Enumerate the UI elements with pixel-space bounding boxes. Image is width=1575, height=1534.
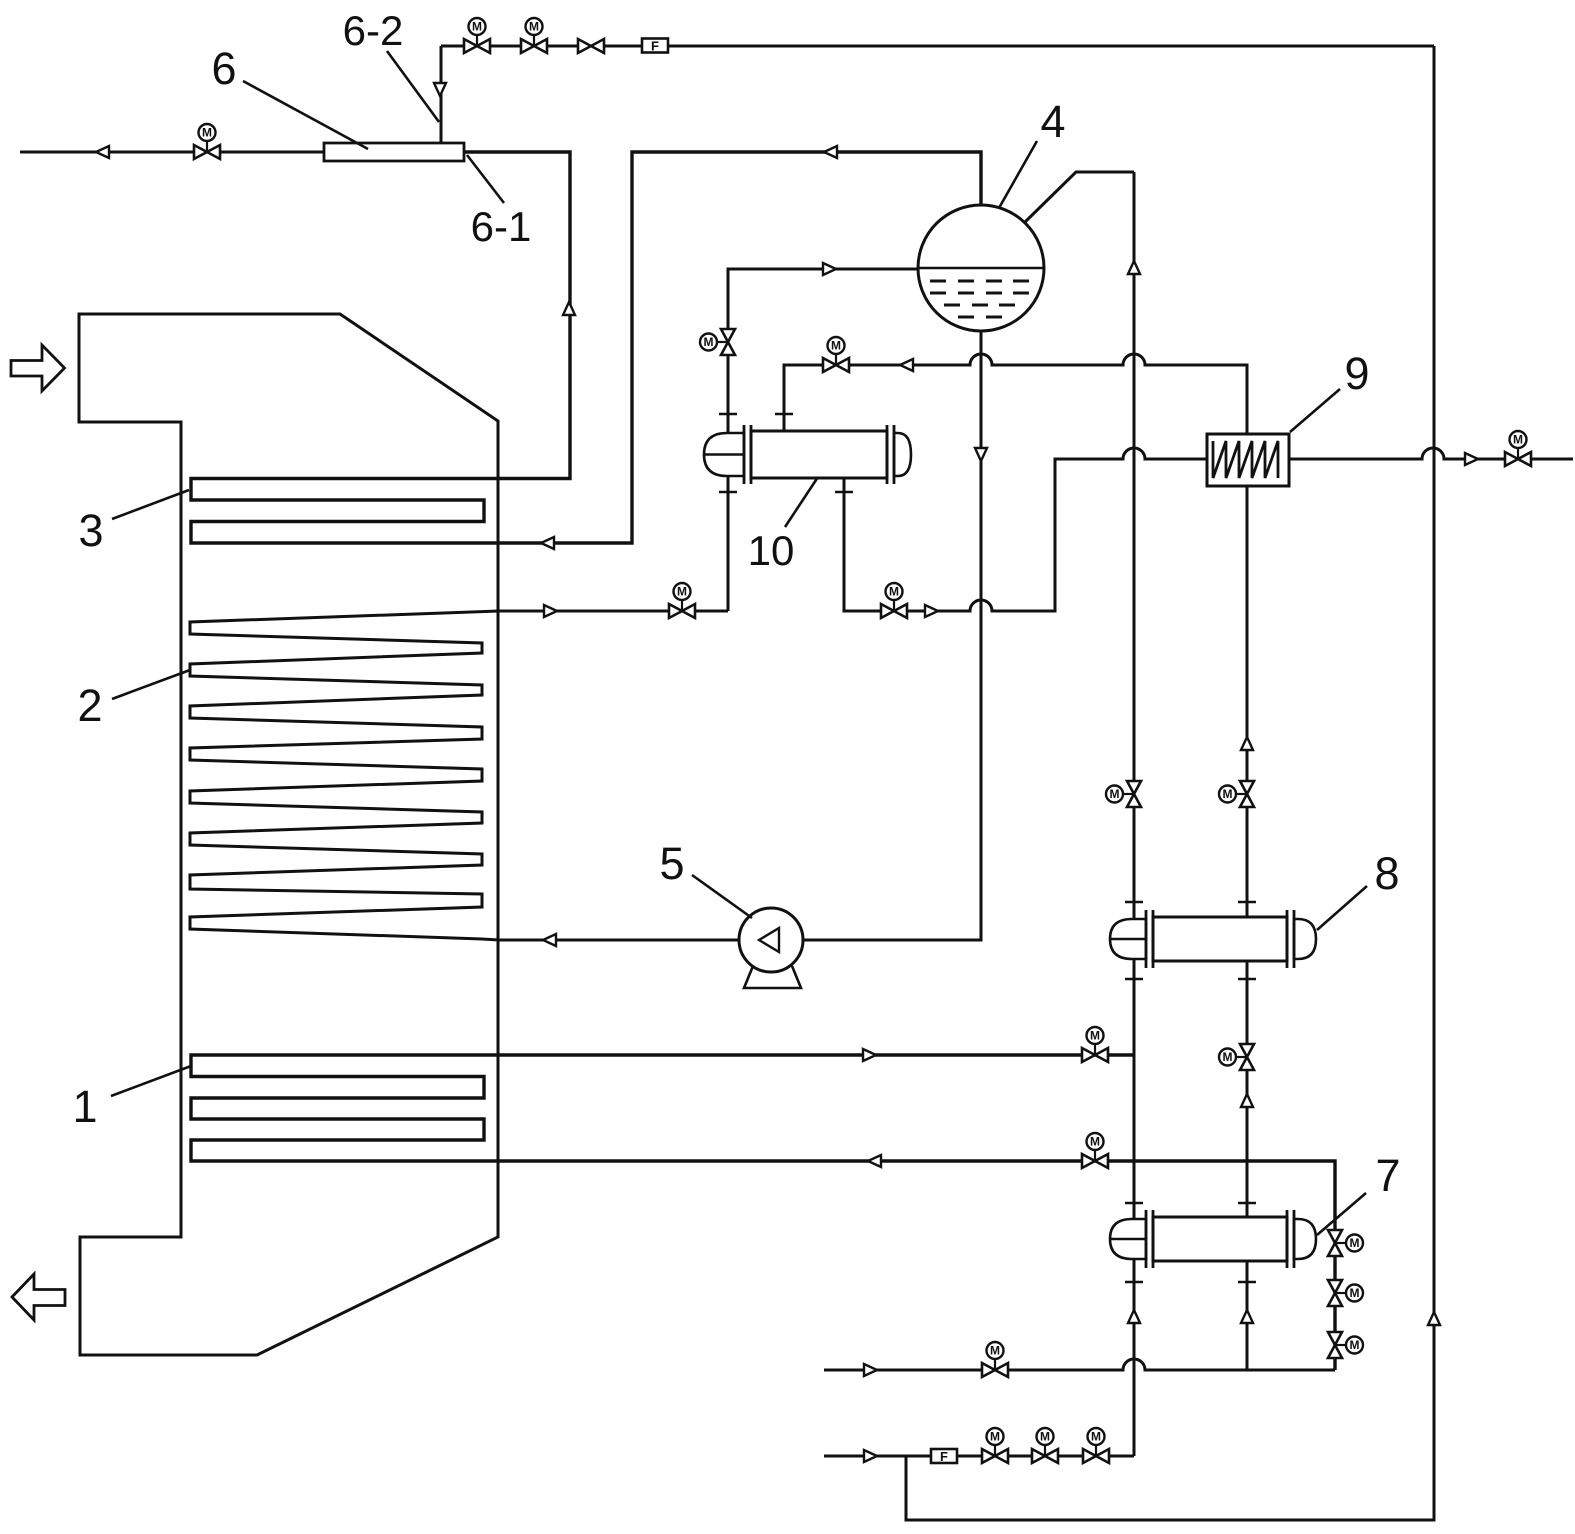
separator vessel 6-1 — [324, 143, 464, 161]
throttling device 9 box — [1207, 434, 1289, 486]
nozzle tick exchanger 7 top-right — [1238, 1202, 1256, 1204]
motor valve below exchanger 8 — [1219, 1044, 1254, 1070]
exchanger 7 right head — [1294, 1219, 1316, 1259]
flow arrow coil 1 inlet line — [863, 1049, 876, 1061]
svg-text:M: M — [1110, 787, 1120, 801]
svg-text:2: 2 — [77, 680, 102, 731]
nozzle tick exchanger 10 top-right — [775, 413, 793, 415]
pipe throttle 9 outlet over border to battery limit — [1289, 448, 1573, 459]
svg-text:M: M — [529, 20, 539, 34]
label 6 leader line — [243, 81, 368, 149]
svg-text:M: M — [990, 1430, 1000, 1444]
exchanger 8 left head — [1110, 919, 1146, 959]
svg-text:M: M — [1223, 787, 1233, 801]
motor valve on exchanger 10 bottom outlet — [881, 583, 907, 618]
pump 5 base — [744, 966, 801, 988]
exchanger 8 right head — [1294, 919, 1316, 959]
nozzle tick exchanger 8 bottom-right — [1238, 978, 1256, 980]
svg-text:M: M — [831, 339, 841, 353]
flue gas inlet arrow — [11, 345, 65, 391]
pipe cooling water inlet line y1370 with hop — [824, 1359, 1335, 1370]
nozzle tick exchanger 7 bottom-left — [1125, 1281, 1143, 1283]
flow arrow drum steam riser — [1128, 261, 1140, 274]
flow arrow up right border return — [1428, 1312, 1440, 1325]
svg-text:3: 3 — [78, 505, 103, 556]
drum 4 liquid level line — [918, 267, 1044, 270]
svg-text:M: M — [202, 126, 212, 140]
nozzle tick exchanger 7 bottom-right — [1238, 1281, 1256, 1283]
motor valve on coil 2 outlet — [669, 583, 695, 618]
boiler flue-gas duct outline — [79, 314, 498, 1355]
heat exchanger 7 shell — [1153, 1217, 1287, 1261]
pipe exchanger 10 shell bottom-left nozzle — [727, 476, 730, 611]
heat exchanger 8 shell — [1153, 917, 1287, 961]
svg-text:M: M — [990, 1344, 1000, 1358]
label 10 leader line — [785, 477, 818, 527]
svg-text:M: M — [1350, 1236, 1360, 1250]
svg-text:10: 10 — [748, 527, 795, 574]
svg-text:9: 9 — [1344, 348, 1369, 399]
label 6-2 leader line — [387, 51, 439, 122]
flow arrow feed into drum 4 — [823, 263, 836, 275]
pipe vertical header x1247 through exchangers 8 and 7 — [1246, 486, 1249, 1370]
nozzle tick exchanger 7 top-left — [1125, 1202, 1143, 1204]
flow arrow coil 3 riser — [563, 302, 575, 315]
label 2 leader line — [112, 670, 190, 699]
motor valve on drum feed riser — [700, 329, 735, 355]
label 3 leader line — [112, 490, 189, 519]
pipe exchanger 10 bottom-right nozzle to throttle 9 with crossing hop — [844, 448, 1207, 611]
label 7 leader line — [1317, 1193, 1366, 1235]
label 8 leader line — [1317, 886, 1367, 930]
nozzle tick exchanger 10 bottom-right — [835, 491, 853, 493]
heat exchanger 10 shell — [751, 431, 887, 478]
svg-text:M: M — [1513, 433, 1523, 447]
motor valve on left steam outlet — [194, 124, 220, 159]
pump 5 impeller triangle — [759, 928, 779, 952]
svg-text:6: 6 — [211, 43, 236, 94]
motor valve on coil 1 outlet line — [1082, 1133, 1108, 1168]
exchanger 8 tube sheet flanges — [1146, 910, 1294, 968]
pipe steam outlet to left battery limit — [20, 151, 324, 154]
flow arrow exchanger 10 outlet — [925, 605, 938, 617]
svg-text:7: 7 — [1375, 1150, 1400, 1201]
svg-text:M: M — [1040, 1430, 1050, 1444]
motor valve on exchanger 10 top return line — [823, 337, 849, 372]
flow arrow drum downcomer — [975, 448, 987, 461]
flow arrow to right battery limit — [1465, 453, 1478, 465]
flow arrow into coil 3 return — [541, 537, 554, 549]
motor valve 1 on bypass manifold — [1328, 1230, 1363, 1256]
pipe drum 4 downcomer to pump 5 suction — [771, 330, 981, 940]
motor valve 3 on bypass manifold — [1328, 1332, 1363, 1358]
label 4 leader line — [999, 141, 1037, 208]
flow arrow up to valve above exchanger 8 — [1241, 737, 1253, 750]
motor valve 3 on make-up water train — [1083, 1428, 1109, 1463]
svg-text:M: M — [1090, 1029, 1100, 1043]
motor valve on header x1134 — [1106, 781, 1141, 807]
motor valve at right battery limit — [1505, 431, 1531, 466]
svg-text:M: M — [1350, 1338, 1360, 1352]
pipe right border return loop — [906, 46, 1434, 1520]
nozzle tick exchanger 10 bottom-left — [719, 491, 737, 493]
pipe vertical riser into throttle 9 — [1246, 366, 1249, 434]
coil 3 superheater serpentine with riser pipes to separator 6-1 and drum line — [191, 152, 981, 543]
exchanger 10 right head — [894, 433, 911, 476]
flow arrow steam outlet left — [96, 146, 109, 158]
steam drum 4 vessel circle — [918, 205, 1044, 331]
flue gas outlet arrow — [12, 1274, 65, 1320]
motor valve on water line y1370 — [982, 1342, 1008, 1377]
svg-text:M: M — [1091, 1430, 1101, 1444]
exchanger 7 left head — [1110, 1219, 1146, 1259]
label 6-1 leader line — [467, 155, 504, 203]
flow arrow pump discharge to coil 2 — [543, 934, 556, 946]
nozzle tick exchanger 8 bottom-left — [1125, 978, 1143, 980]
svg-text:6-2: 6-2 — [343, 7, 404, 54]
label 9 leader line — [1290, 389, 1340, 432]
motor valve on header x1247 above exchanger 8 — [1219, 781, 1254, 807]
svg-text:M: M — [1350, 1286, 1360, 1300]
pipe drum 4 steam outlet diagonal — [1025, 172, 1134, 222]
svg-text:6-1: 6-1 — [471, 203, 532, 250]
pipe vent riser 6-2 from separator — [440, 46, 443, 143]
coil 1 economizer serpentine with lines to exchanger 8 and valve manifold — [191, 1055, 1335, 1370]
svg-text:M: M — [472, 20, 482, 34]
flow arrow up into exchanger 7 right — [1241, 1310, 1253, 1323]
flow arrow exchanger 7 to 8 — [1241, 1094, 1253, 1107]
drum 4 liquid shading dashes — [930, 281, 1029, 317]
label 1 leader line — [111, 1066, 191, 1096]
manual valve on vent header — [578, 39, 604, 53]
flow meter F bottom line — [931, 1449, 957, 1463]
pipe feed riser to drum 4 from exchanger 10 — [728, 269, 918, 434]
flow arrow drum steam to header — [824, 146, 837, 158]
motor valve on vent header 2 — [521, 18, 547, 53]
svg-text:M: M — [1090, 1135, 1100, 1149]
svg-text:8: 8 — [1374, 848, 1399, 899]
nozzle tick exchanger 10 top-left — [719, 413, 737, 415]
exchanger 10 left head — [704, 433, 744, 476]
svg-text:5: 5 — [659, 838, 684, 889]
pipe main vertical header x1134 — [1133, 172, 1136, 1456]
motor valve 2 on bypass manifold — [1328, 1280, 1363, 1306]
svg-text:4: 4 — [1040, 96, 1065, 147]
motor valve 2 on make-up water train — [1032, 1428, 1058, 1463]
svg-text:F: F — [651, 39, 659, 54]
motor valve 1 on make-up water train — [982, 1428, 1008, 1463]
pump 5 casing circle — [739, 908, 803, 972]
svg-text:M: M — [1223, 1050, 1233, 1064]
svg-text:F: F — [940, 1449, 948, 1464]
pipe exchanger 10 top-right nozzle to vertical riser with crossing hops — [784, 354, 1247, 434]
flow arrow make-up water train — [864, 1450, 877, 1462]
motor valve on coil 1 inlet line — [1082, 1027, 1108, 1062]
nozzle tick exchanger 8 top-right — [1238, 901, 1256, 903]
svg-text:M: M — [704, 335, 714, 349]
coil 2 evaporator serpentine, outlet to valve line and inlet from pump 5 — [190, 611, 739, 940]
flow arrow coil 2 outlet — [544, 605, 557, 617]
exchanger 7 tube sheet flanges — [1146, 1210, 1294, 1268]
flow arrow coil 1 outlet line — [868, 1155, 881, 1167]
flow arrow return to exchanger 10 — [900, 359, 913, 371]
pipe vent header to right border — [441, 45, 1434, 48]
flow arrow water line y1370 — [864, 1364, 877, 1376]
svg-text:1: 1 — [72, 1081, 97, 1132]
flow meter F top line — [642, 39, 668, 53]
label 5 leader line — [692, 875, 752, 918]
svg-text:M: M — [677, 585, 687, 599]
flow arrow up into exchanger 7 left — [1128, 1310, 1140, 1323]
throttling device 9 sawtooth element — [1213, 441, 1278, 478]
flow arrow into separator 6-1 — [434, 83, 446, 96]
svg-text:M: M — [889, 585, 899, 599]
motor valve on vent header 1 — [464, 18, 490, 53]
nozzle tick exchanger 8 top-left — [1125, 901, 1143, 903]
exchanger 10 tube sheet flanges — [744, 425, 894, 484]
pipe make-up water inlet line y1456 to valve train — [824, 1455, 1134, 1458]
